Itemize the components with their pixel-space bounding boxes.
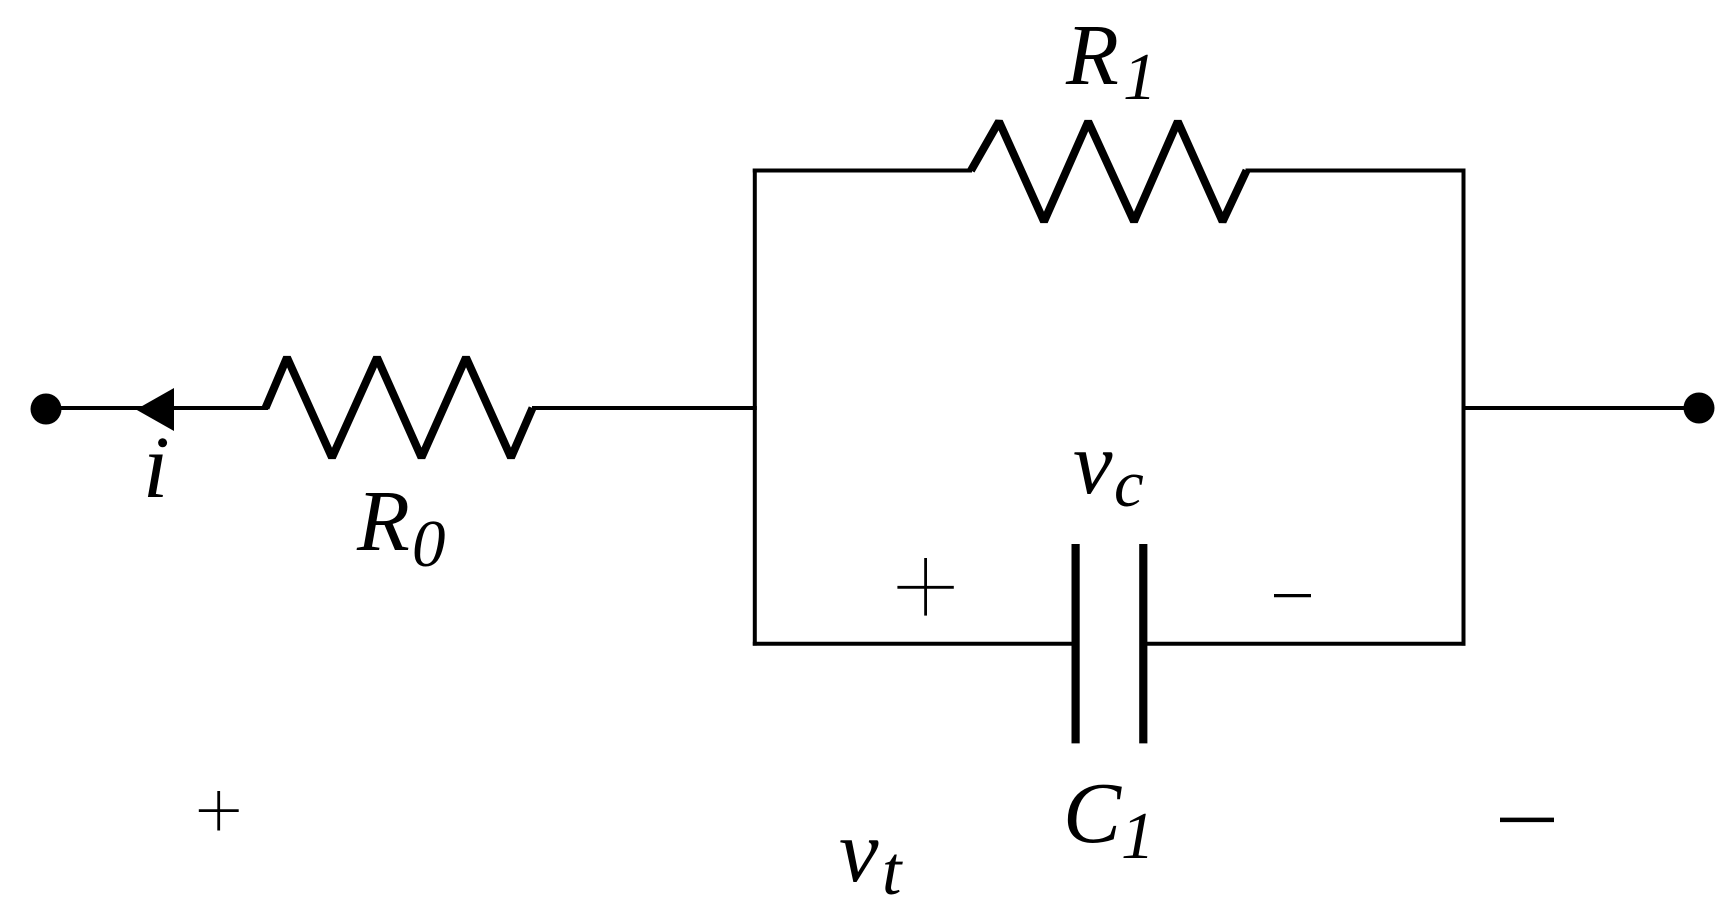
- minus sign of vt (bottom right): [1500, 818, 1554, 823]
- resistor R1: [971, 122, 1247, 222]
- capacitor C1 left plate: [1071, 544, 1079, 743]
- wire: bottom-left horizontal to capacitor C1: [753, 642, 1072, 646]
- svg-text:v: v: [1073, 415, 1113, 513]
- svg-text:ı: ı: [143, 415, 169, 517]
- wire: left terminal to resistor R0: [46, 406, 268, 410]
- wire: resistor R0 to parallel block: [532, 406, 757, 410]
- plus sign of vc (left of capacitor): [897, 586, 953, 589]
- svg-text:1: 1: [1121, 799, 1155, 873]
- wire: top-left horizontal to R1: [753, 169, 972, 173]
- svg-text:1: 1: [1123, 40, 1157, 114]
- plus sign of vt (bottom left): [199, 809, 239, 812]
- wire: right vertical of parallel block: [1462, 169, 1466, 646]
- wire: capacitor C1 to bottom-right horizontal: [1147, 642, 1466, 646]
- wire: left vertical of parallel block: [753, 169, 757, 646]
- wire: block to right terminal: [1464, 406, 1700, 410]
- minus sign of vc (right of capacitor): [1274, 594, 1311, 597]
- resistor R0: [266, 358, 533, 458]
- svg-text:R: R: [356, 473, 410, 569]
- node A (left terminal dot): [31, 394, 62, 425]
- current arrow i (points left): [136, 388, 174, 431]
- svg-text:t: t: [882, 833, 903, 910]
- svg-text:v: v: [839, 803, 879, 901]
- wire: R1 to top-right horizontal: [1246, 169, 1466, 173]
- svg-text:R: R: [1065, 7, 1119, 103]
- svg-text:0: 0: [412, 507, 446, 581]
- svg-text:c: c: [1114, 447, 1144, 521]
- capacitor C1 right plate: [1139, 544, 1147, 743]
- node B (right terminal dot): [1684, 393, 1715, 424]
- svg-text:C: C: [1063, 764, 1122, 861]
